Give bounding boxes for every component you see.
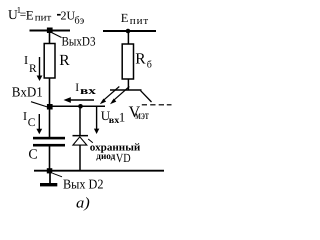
svg-text:I: I bbox=[24, 53, 28, 67]
svg-text:R: R bbox=[135, 51, 146, 68]
svg-text:2U: 2U bbox=[61, 8, 76, 22]
svg-text:E: E bbox=[26, 7, 34, 22]
svg-text:I: I bbox=[23, 109, 27, 123]
svg-text:а): а) bbox=[76, 195, 90, 211]
svg-text:пит: пит bbox=[35, 13, 52, 24]
svg-text:ВхD1: ВхD1 bbox=[12, 86, 43, 101]
svg-text:диод: диод bbox=[96, 152, 115, 162]
svg-text:C: C bbox=[28, 148, 37, 163]
svg-text:Вых D2: Вых D2 bbox=[63, 177, 104, 192]
svg-text:вх: вх bbox=[80, 86, 97, 97]
svg-text:МЭТ: МЭТ bbox=[135, 111, 149, 121]
svg-text:ВыхD3: ВыхD3 bbox=[62, 33, 96, 48]
svg-text:бэ: бэ bbox=[74, 15, 84, 26]
svg-text:пит: пит bbox=[130, 15, 149, 27]
svg-text:I: I bbox=[75, 82, 79, 94]
svg-text:1: 1 bbox=[119, 109, 126, 124]
svg-text:C: C bbox=[28, 117, 36, 129]
svg-text:б: б bbox=[147, 59, 152, 70]
svg-text:R: R bbox=[59, 52, 70, 69]
svg-text:E: E bbox=[121, 11, 129, 25]
svg-text:R: R bbox=[29, 63, 37, 75]
svg-text:VD: VD bbox=[116, 151, 131, 165]
